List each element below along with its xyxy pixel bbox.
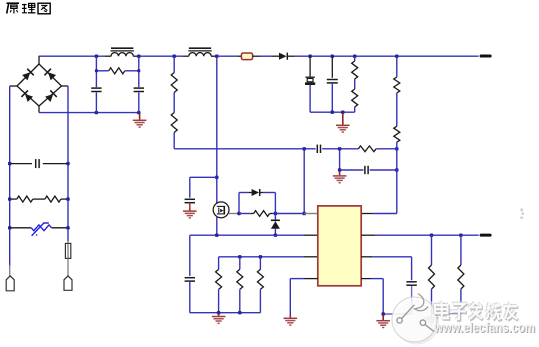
wire riser xyxy=(238,193,240,214)
node C2-bottom xyxy=(137,111,140,114)
node fb-2 xyxy=(338,147,341,150)
node R1-right xyxy=(137,69,140,72)
wire output row xyxy=(375,234,478,236)
wire main bus segment 4 xyxy=(261,55,272,57)
wire D3 bottom lead xyxy=(274,229,276,236)
wire pin3R blue xyxy=(372,256,411,258)
wire bridge top stub xyxy=(38,56,40,64)
resistor R9 xyxy=(254,211,270,217)
wire main bus lead L2 left xyxy=(182,55,189,57)
wire d2 row b xyxy=(263,192,275,194)
op-amp U1 body xyxy=(318,206,361,286)
node bank-3 xyxy=(259,255,262,258)
capacitor C5 xyxy=(316,145,318,153)
wire C7 stem xyxy=(189,203,191,209)
node bus-C xyxy=(173,55,176,58)
wire R13 top xyxy=(431,235,433,265)
varistor RV1 zigzag xyxy=(31,225,51,231)
wire main bus lead L1 right xyxy=(133,55,139,57)
wire lead terminal J2 xyxy=(67,258,69,276)
wire main bus segment 2 xyxy=(139,55,182,57)
node source-row xyxy=(215,234,218,237)
wire fb row mid xyxy=(322,148,358,150)
wire vcc cap down xyxy=(189,177,191,198)
terminal J2 xyxy=(64,276,72,290)
title text 原理图 xyxy=(7,3,51,14)
resistor R1 xyxy=(109,68,125,74)
wire C9 branch down xyxy=(411,257,413,280)
resistor Rl2 xyxy=(45,196,61,202)
fuse F2 box xyxy=(65,243,70,258)
wire main bus segment 3 xyxy=(217,55,237,57)
wire lead terminal J1 xyxy=(9,266,11,276)
wire bridge right stub xyxy=(62,85,69,87)
wire R4 mid xyxy=(354,79,356,89)
ground load xyxy=(425,314,439,325)
ground pin4L xyxy=(284,315,298,326)
wire fb row right xyxy=(376,148,397,150)
watermark text 电子发烧友 xyxy=(434,301,518,321)
bridge edge top-left xyxy=(17,64,39,86)
capacitor C2 xyxy=(134,87,144,89)
wire D2 lead right xyxy=(260,192,263,194)
node out-2 xyxy=(459,234,462,237)
transistor Q1 circle xyxy=(213,202,229,218)
wire lead RV left xyxy=(10,227,32,229)
wire fb row left xyxy=(174,148,315,150)
ground bridge-minus xyxy=(133,113,147,127)
pin 4L stub xyxy=(305,278,318,280)
node out-1 xyxy=(430,234,433,237)
wire AC left rail xyxy=(9,86,11,266)
capacitor C9 xyxy=(406,281,416,283)
node RV-left xyxy=(8,226,11,229)
node gate-1 xyxy=(237,212,240,215)
wire cap row right xyxy=(370,169,397,171)
diode bridge D-bottomleft xyxy=(21,90,33,102)
wire pin1R blue xyxy=(372,213,396,215)
wire gate gray xyxy=(229,213,239,215)
terminal J1 xyxy=(6,276,14,291)
wire d2 drop xyxy=(274,193,276,214)
resistor R3 xyxy=(171,113,177,133)
node bus-H drain xyxy=(215,55,218,58)
resistor R12 xyxy=(257,269,263,289)
wire lead diode D1 right xyxy=(287,55,294,57)
resistor R4 xyxy=(352,61,358,79)
wire pin4R blue xyxy=(371,278,383,280)
diode bridge D-bottomright xyxy=(45,90,57,102)
pin 3R stub xyxy=(361,256,372,258)
wire gate row a xyxy=(239,213,251,215)
wire lead diode D1 left xyxy=(272,55,279,57)
wire C9 return xyxy=(383,313,411,315)
pin 2R stub xyxy=(361,234,375,236)
watermark edge specks xyxy=(521,209,524,219)
ground fb xyxy=(333,171,347,184)
wire R11 top xyxy=(239,257,241,270)
node bus-B xyxy=(137,55,140,58)
node gnd4R xyxy=(382,312,385,315)
node fb-3 xyxy=(395,147,398,150)
wire C3 top lead xyxy=(309,56,311,76)
wire snubber bottom rail xyxy=(310,111,355,113)
node gate-pin-node xyxy=(303,212,306,215)
capacitor C8 xyxy=(185,277,195,279)
wire R14 bottom xyxy=(460,289,462,314)
pin 1L stub xyxy=(304,213,318,215)
node C1-bottom xyxy=(95,111,98,114)
wire lead R-ladder right xyxy=(61,198,68,200)
diode bridge D-topright xyxy=(44,69,56,81)
node RV-right xyxy=(66,226,69,229)
node bus-A xyxy=(95,55,98,58)
wire branch A lower xyxy=(95,92,97,112)
wire branch fb2 down xyxy=(339,149,341,170)
diode D1 xyxy=(279,53,287,60)
diode bridge D-topleft xyxy=(22,69,34,81)
wire row2 left xyxy=(190,234,304,236)
node bus-G at R7 xyxy=(395,55,398,58)
wire C3 bottom lead xyxy=(309,85,311,112)
wire C8 down xyxy=(189,281,191,313)
pin 2L stub xyxy=(304,234,318,236)
node fb3-low xyxy=(395,168,398,171)
wire row2 corner down xyxy=(189,235,191,276)
wire lead fuse right xyxy=(253,55,261,57)
wire main bus lead L2 right xyxy=(211,55,217,57)
pin 3L stub xyxy=(304,256,318,258)
wire R12 bottom xyxy=(259,289,261,312)
resistor Rl1 xyxy=(17,196,33,202)
wire fb3 down xyxy=(396,149,398,214)
node bus-D xyxy=(308,55,311,58)
wire AC right rail upper xyxy=(67,86,69,241)
wire R4 top lead xyxy=(354,56,356,61)
wire C9 down xyxy=(411,285,413,314)
fuse F1 box xyxy=(241,53,252,60)
wire bridge left stub xyxy=(10,85,17,87)
wire bridge bottom rail xyxy=(39,112,140,114)
wire R14 top xyxy=(460,235,462,265)
wire main bus lead L1 left xyxy=(105,55,112,57)
wire chain C mid xyxy=(173,93,175,113)
wire cap row left xyxy=(340,169,364,171)
node bank-2 xyxy=(238,255,241,258)
bridge edge bottom-left xyxy=(17,86,39,106)
wire C4 bottom lead xyxy=(331,83,333,112)
resistor R10 xyxy=(216,269,222,289)
node bus-F xyxy=(353,55,356,58)
capacitor C4 xyxy=(327,79,338,81)
resistor R5 xyxy=(352,89,358,107)
node fb2-low xyxy=(338,168,341,171)
wire link Rl1-Rl2 xyxy=(33,198,45,200)
wire gate row b xyxy=(273,213,276,215)
wire lead CX right xyxy=(43,163,68,165)
wire drain vertical xyxy=(216,56,218,203)
pin 4R stub xyxy=(361,278,371,280)
inductor L1 xyxy=(111,47,133,49)
wire R7 top lead xyxy=(396,56,398,77)
wire R10 top xyxy=(218,257,220,270)
wire R4 bottom lead xyxy=(354,107,356,112)
resistor R2 xyxy=(171,73,177,93)
node fb-1 xyxy=(303,147,306,150)
node snub-2 xyxy=(341,111,344,114)
wire R10 bottom xyxy=(218,289,220,312)
watermark logo xyxy=(392,301,539,347)
ground snubber xyxy=(336,113,350,133)
resistor R6 xyxy=(358,146,376,152)
node CX-left xyxy=(8,162,11,165)
wire R8 bottom lead xyxy=(396,142,398,149)
wire R7-R8 link xyxy=(396,93,398,126)
wire bridge bottom stub xyxy=(38,106,40,113)
wire main bus segment 1 xyxy=(39,55,105,57)
node R1-left xyxy=(95,69,98,72)
resistor R11 xyxy=(237,269,243,289)
node CX-right xyxy=(66,162,69,165)
node bank-gnd xyxy=(217,311,220,314)
svg-text:www.elecfans.com: www.elecfans.com xyxy=(433,320,535,335)
inductor L2 xyxy=(189,47,211,49)
wire R1 lead right xyxy=(125,70,139,72)
wire main bus segment 5 xyxy=(295,55,479,57)
wire C4 top lead xyxy=(331,56,333,78)
resistor R13 xyxy=(429,265,435,289)
node Rl-right xyxy=(66,197,69,200)
capacitor CX xyxy=(35,159,37,168)
varistor RV1 arrow xyxy=(32,223,49,236)
bridge edge bottom-right xyxy=(39,86,62,106)
resistor R14 xyxy=(458,265,464,289)
ground bank xyxy=(212,313,226,324)
wire row3 xyxy=(219,256,304,258)
wire lead fuse F2 top xyxy=(67,241,69,243)
ground vcc-cap xyxy=(183,209,197,219)
wire lead RV right xyxy=(52,227,68,229)
transistor Q1 glyph xyxy=(217,205,224,207)
wire lead R-ladder left xyxy=(10,198,17,200)
capacitor C3 polarized xyxy=(305,76,314,78)
terminal output+ dash xyxy=(480,55,492,58)
wire R9 lead right xyxy=(270,213,273,215)
diode D3 zener xyxy=(271,219,280,221)
wire bank bottom rail xyxy=(190,312,261,314)
wire tap left xyxy=(190,176,217,178)
wire lead CX left xyxy=(10,163,32,165)
wire R9 lead left xyxy=(251,213,254,215)
resistor R7 xyxy=(394,77,400,93)
wire pin4L down xyxy=(289,279,291,315)
wire d2 row a xyxy=(239,192,249,194)
wire D3 top lead xyxy=(274,214,276,220)
node bank-b2 xyxy=(238,311,241,314)
wire pin4R down xyxy=(382,279,384,314)
wire pin4L blue xyxy=(290,278,304,280)
terminal output- dash xyxy=(480,234,492,237)
node gate-2 xyxy=(274,212,277,215)
capacitor C7 xyxy=(185,198,195,200)
bridge edge top-right xyxy=(39,64,62,86)
node bus-E xyxy=(331,55,334,58)
node source-row-z xyxy=(274,234,277,237)
wire pin1L blue xyxy=(275,213,304,215)
wire source vertical xyxy=(216,216,218,235)
wire R1 lead left xyxy=(96,70,108,72)
wire R12 top xyxy=(259,257,261,270)
diode D2 xyxy=(252,189,259,196)
wire R13 bottom xyxy=(431,289,433,314)
wire D2 lead left xyxy=(249,192,252,194)
wire chain C bottom xyxy=(173,133,175,149)
node drain-tap xyxy=(215,176,218,179)
wire lead fuse left xyxy=(237,55,241,57)
node snub-1 xyxy=(331,111,334,114)
wire branch fb1 down xyxy=(303,149,305,214)
ground pin4R xyxy=(376,315,390,329)
capacitor C1 xyxy=(91,87,101,89)
wire branch B lower xyxy=(138,92,140,112)
pin 1R stub xyxy=(361,213,372,215)
node Rl-left xyxy=(8,197,11,200)
wire branch A upper xyxy=(95,56,97,87)
wire load bottom rail xyxy=(432,313,461,315)
wire R11 bottom xyxy=(239,289,241,312)
wire chain C top xyxy=(173,56,175,72)
resistor R8 xyxy=(394,126,400,142)
capacitor C6 xyxy=(364,166,366,174)
wire branch B upper xyxy=(138,56,140,87)
